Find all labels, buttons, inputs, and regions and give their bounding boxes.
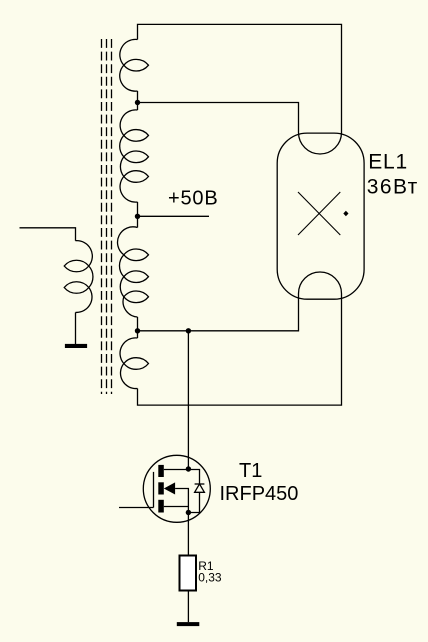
T1 body diode anode wire (188, 492, 199, 512)
wire: source to R1 (187, 513, 189, 556)
svg-text:36Вт: 36Вт (367, 175, 419, 198)
node A junction (135, 100, 140, 105)
wire: feedback winding to ground (75, 312, 77, 344)
T1 source junction dot (186, 510, 191, 515)
T1 gate electrode (153, 472, 155, 508)
lamp EL1 dot (343, 211, 348, 216)
T1 substrate arrow (164, 482, 175, 494)
lamp EL1 top filament arc (299, 133, 342, 154)
wire: +50V supply stub (138, 215, 210, 217)
svg-text:+50В: +50В (168, 188, 218, 210)
T1 drain contact bar (158, 465, 164, 477)
lamp EL1 bottom filament arc (299, 272, 342, 293)
winding 1 (secondary top, 1 turn) (120, 39, 138, 91)
T1 drain connection (164, 469, 189, 471)
ground (feedback winding) (65, 344, 87, 348)
winding 4 (secondary bottom, 1 turn) (120, 338, 137, 389)
winding 3 (secondary, 3 turns) (118, 227, 138, 317)
T1 body diode cathode wire (188, 470, 199, 485)
svg-text:IRFP450: IRFP450 (220, 483, 299, 505)
svg-text:0,33: 0,33 (198, 570, 222, 584)
T1 source connection (164, 506, 189, 508)
resistor R1 (180, 556, 197, 591)
wire: node A to lamp top-left terminal (138, 103, 299, 133)
transistor T1 body circle (143, 455, 210, 522)
wire: feedback winding top lead (20, 228, 76, 241)
junction: node B to drain (186, 328, 191, 333)
svg-text:EL1: EL1 (368, 151, 408, 174)
node B junction (winding tap) (135, 328, 140, 333)
wire: drain of T1 (187, 331, 189, 469)
wire: node B to lamp bottom-left terminal (138, 294, 299, 331)
T1 body diode cathode bar (195, 483, 205, 485)
transformer core (102, 39, 112, 394)
T1 drain junction dot (186, 466, 191, 471)
T1 body contact bar (158, 482, 164, 494)
wire: gate lead stub (119, 507, 154, 509)
winding 2 (secondary, 3 turns) (120, 110, 138, 202)
T1 source contact bar (158, 500, 164, 513)
wire: R1 to ground (187, 591, 189, 623)
wire: winding1 top to lamp top-right terminal (138, 24, 342, 132)
wire: substrate to source (175, 489, 188, 513)
node +50V junction (135, 214, 140, 219)
lamp EL1 cross (298, 192, 340, 235)
svg-text:T1: T1 (239, 460, 262, 482)
wire: winding4 bottom to lamp bottom-right terminal (138, 294, 342, 406)
lamp EL1 body (277, 133, 364, 299)
ground (R1) (177, 622, 200, 626)
T1 body diode triangle (195, 484, 205, 492)
feedback winding (2 turns) (76, 241, 93, 313)
